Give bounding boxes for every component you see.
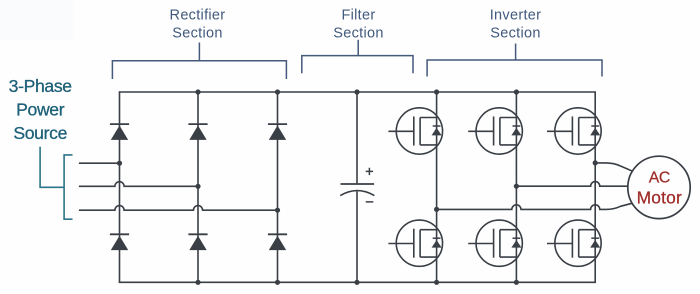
svg-text:Rectifier: Rectifier (170, 8, 226, 24)
svg-text:Inverter: Inverter (490, 8, 542, 24)
svg-text:Source: Source (13, 123, 67, 143)
svg-text:Section: Section (490, 26, 540, 42)
svg-text:Section: Section (333, 26, 383, 42)
svg-text:Motor: Motor (637, 187, 682, 207)
svg-text:Filter: Filter (341, 8, 375, 24)
svg-text:AC: AC (649, 169, 670, 186)
svg-text:Section: Section (172, 26, 222, 42)
svg-text:Power: Power (16, 99, 65, 119)
svg-text:3-Phase: 3-Phase (9, 76, 72, 96)
